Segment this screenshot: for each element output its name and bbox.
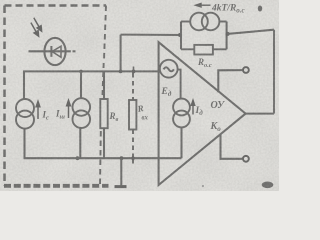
light arrows (optical input)	[31, 18, 42, 36]
junction dot feedback tap	[119, 70, 123, 74]
arrow for Iд	[191, 100, 195, 115]
feedback resistor Rос	[194, 45, 213, 55]
junction dot Iш top	[79, 70, 83, 74]
dashed box (photodiode equivalent circuit boundary)	[4, 6, 109, 187]
resistor Rвх (amplifier input resistance)	[129, 100, 136, 130]
bottom rail wire (common)	[24, 157, 182, 159]
label arrow for 4kT/Roc	[195, 3, 211, 7]
junction dot Iш bottom	[76, 156, 80, 160]
current source Ic (signal current)	[16, 99, 34, 129]
junction dot Rвх bottom	[131, 156, 135, 160]
current source Iш (shot noise)	[73, 98, 91, 128]
current noise source Iд (two circles)	[173, 99, 190, 128]
paper blotches	[0, 0, 279, 191]
ink smudge bottom right	[262, 182, 274, 189]
resistor Rв	[100, 99, 107, 128]
wire: Iд bottom to bottom rail	[180, 127, 182, 158]
wire: down to ground	[120, 158, 122, 186]
wire: rail down to Iш	[80, 71, 82, 98]
stub to noise source	[181, 21, 190, 23]
stub from noise source	[219, 21, 226, 23]
stub to Rос	[181, 48, 194, 50]
noise current source 4kT/Rос (two circles)	[190, 13, 219, 31]
junction dot feedback left node	[178, 33, 182, 37]
ground	[115, 185, 127, 188]
photodiode VD	[29, 38, 76, 65]
wire: rail down to Rв	[103, 71, 105, 99]
feedback network right vertical	[226, 22, 228, 50]
wire: feedback right vertical down	[273, 30, 275, 114]
junction dot feedback right node	[226, 32, 230, 36]
wire: Ic bottom to bottom rail	[23, 129, 25, 159]
junction dot Rвх top	[132, 70, 136, 74]
wire: Rв bottom to bottom rail	[103, 128, 105, 159]
dashed wire: rail to Rвх	[132, 73, 134, 100]
ink mark after label	[258, 6, 262, 12]
small ink speck	[202, 185, 204, 187]
op-amp triangle	[159, 42, 246, 185]
wire: feedback top left segment	[121, 34, 181, 36]
arrow for Ic	[36, 101, 40, 120]
feedback network left vertical	[180, 22, 182, 50]
wire: bottom edge tap to lower output terminal	[221, 134, 243, 159]
upper output terminal	[243, 67, 249, 73]
wire: left end down to Ic	[23, 71, 25, 100]
lower output terminal	[243, 156, 249, 162]
wire: Iш bottom to bottom rail	[79, 128, 81, 159]
top rail wire (input node)	[23, 70, 160, 72]
wire: top edge tap to upper output terminal	[218, 70, 243, 92]
junction Rвх bottom tick	[132, 158, 134, 163]
dashed wire: Rвх bottom to bottom rail	[132, 130, 134, 158]
junction dot ground tap	[120, 156, 124, 160]
wire: Eд to Iд	[178, 70, 181, 99]
tick above Rвх junction	[133, 67, 135, 71]
stub from Rос	[213, 48, 227, 50]
wire: apex to feedback corner	[246, 113, 274, 115]
arrow for Iш	[66, 100, 70, 119]
wire: feedback tap up	[120, 35, 122, 72]
wire: feedback right segment to output	[228, 30, 274, 34]
paper grain	[0, 0, 279, 191]
voltage noise source Eд	[160, 60, 178, 78]
